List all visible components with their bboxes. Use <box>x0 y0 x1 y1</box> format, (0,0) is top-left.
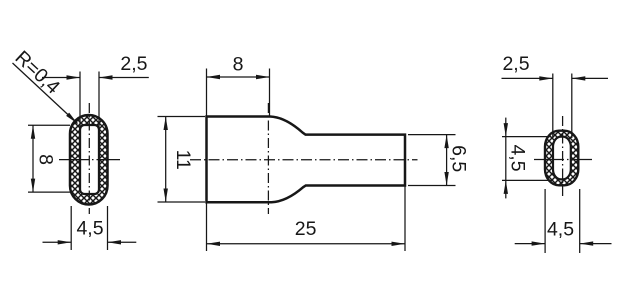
right view horizontal centerline <box>534 159 592 161</box>
svg-text:8: 8 <box>34 154 56 165</box>
svg-text:2,5: 2,5 <box>120 53 147 75</box>
svg-text:R=0,4: R=0,4 <box>11 47 65 99</box>
dimension 4,5 right view left: extension lines <box>502 137 551 181</box>
dimension 2,5 left view: dimension line tails <box>42 77 149 79</box>
left view hatched ring <box>70 115 108 205</box>
dimension 8 left view: arrows <box>31 125 35 139</box>
leader R=0,4: arrowhead <box>66 113 79 125</box>
dimension 4,5 right view bottom: extension lines <box>545 189 580 253</box>
dimension 2,5 right view top: dimension line tails <box>502 77 609 79</box>
left view vertical centerline <box>88 103 90 214</box>
left view inner bore contour <box>80 125 99 194</box>
dimension 2,5 right view top: arrows <box>539 76 553 80</box>
dimension 2,5 right view top: extension lines <box>553 74 572 139</box>
dimension 11 middle view left: arrows <box>164 117 168 131</box>
right view inner bore contour <box>553 137 571 180</box>
dimension 25 middle view bottom: dimension line <box>207 243 406 245</box>
dimension 6,5 middle view right: extension lines <box>408 135 456 186</box>
svg-text:25: 25 <box>295 218 317 240</box>
dimension 4,5 right view bottom: arrows <box>532 241 546 245</box>
dimension 25 middle view bottom: extension lines <box>207 186 406 251</box>
svg-text:11: 11 <box>172 150 194 170</box>
svg-text:6,5: 6,5 <box>447 145 469 172</box>
dimension 2,5 left view: arrows <box>67 75 81 79</box>
dimension 8 middle view top: extension lines <box>207 69 270 117</box>
svg-text:8: 8 <box>233 54 244 76</box>
middle view horizontal centerline <box>190 159 418 161</box>
middle view body contour <box>207 117 406 203</box>
right view hatched ring <box>545 131 578 186</box>
left view horizontal centerline <box>59 159 120 161</box>
right view vertical centerline <box>562 116 564 198</box>
dimension 4,5 left view bottom: extension lines <box>71 206 107 250</box>
dimension 8 middle view top: dimension line <box>207 76 270 78</box>
dimension 4,5 right view left: arrows <box>504 123 508 137</box>
dimension 8 middle view top: arrows <box>207 75 221 79</box>
svg-text:4,5: 4,5 <box>506 144 528 171</box>
dimension 6,5 middle view right: dimension line <box>446 135 448 186</box>
left view outer contour <box>70 115 108 205</box>
dimension 11 middle view left: extension lines <box>158 117 206 203</box>
right view outer contour <box>545 131 578 186</box>
dimension 4,5 left view bottom: arrows <box>58 240 72 244</box>
dimension 25 middle view bottom: arrows <box>207 242 221 246</box>
svg-text:4,5: 4,5 <box>76 218 103 240</box>
svg-text:2,5: 2,5 <box>502 53 529 75</box>
leader R=0,4: line <box>13 63 78 124</box>
dimension 8 left view: dimension line <box>32 125 34 192</box>
dimension 11 middle view left: dimension line <box>165 117 167 203</box>
dimension 6,5 middle view right: arrows <box>444 135 448 149</box>
dimension 8 left view: extension lines <box>28 125 70 192</box>
dimension 4,5 right view bottom: dimension line tails <box>515 243 612 245</box>
dimension 4,5 left view bottom: dimension line tails <box>43 241 137 243</box>
dimension 4,5 right view left: dimension line <box>505 118 507 199</box>
dimension 2,5 left view: extension lines <box>80 72 99 128</box>
svg-text:4,5: 4,5 <box>547 219 574 241</box>
middle view vertical dash-dot line <box>267 103 269 214</box>
